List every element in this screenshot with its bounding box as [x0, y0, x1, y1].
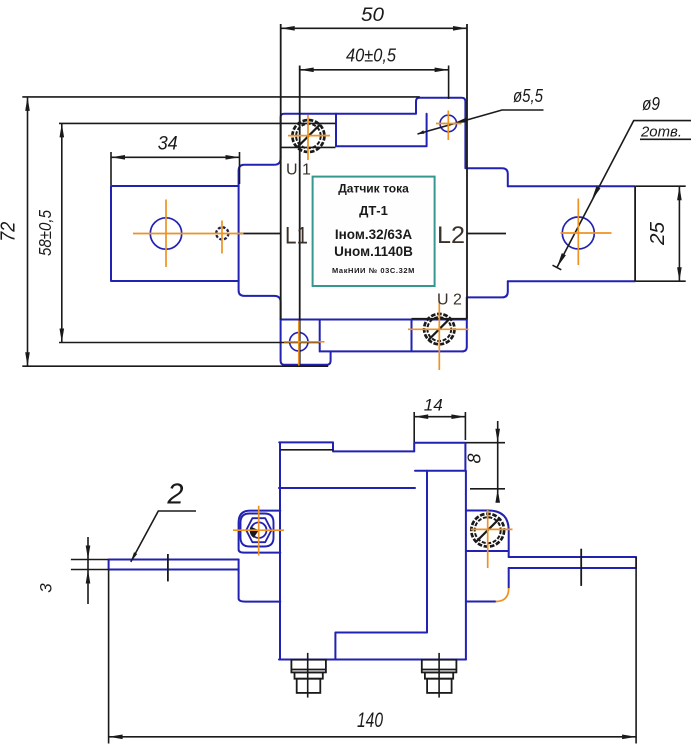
body bottom edge side view [279, 659, 466, 661]
body bottom-right corner [462, 297, 467, 351]
svg-text:8: 8 [465, 453, 485, 463]
dim 40±0.5 line [300, 69, 449, 71]
dim 25 extension lines [636, 186, 686, 281]
bottom recess edge [320, 320, 463, 352]
cover step edge side view [280, 449, 333, 451]
mounting hole Ø5.5 bottom-left [290, 333, 308, 351]
body outline top view: left edge + top edge + top-right ear [281, 98, 466, 169]
centreline screw U2 [408, 301, 469, 370]
centreline screw U1 [288, 115, 330, 160]
top step + slab top edge side view [279, 442, 414, 451]
terminal line L2 [467, 233, 506, 235]
dim 25 line [678, 186, 680, 281]
centreline small hole left bar [221, 221, 223, 254]
centreline screw right side view [471, 510, 513, 568]
svg-text:40±0,5: 40±0,5 [346, 46, 397, 66]
dim 72 extension lines [22, 97, 420, 366]
svg-text:L1: L1 [285, 223, 308, 250]
dim 3 line [87, 537, 89, 604]
svg-text:Iном.32/63А: Iном.32/63А [335, 227, 412, 242]
left bus bar side view [109, 560, 239, 570]
centreline hole Ø5.5 top [436, 111, 462, 141]
bottom terminal bolt left [291, 653, 326, 698]
extension line 40 right [448, 66, 450, 100]
left screw ear side view [239, 511, 281, 553]
centreline left bar axis [133, 233, 244, 235]
dim 14 extension lines [414, 412, 465, 442]
svg-text:140: 140 [357, 709, 383, 732]
left bus bar plate top view [111, 186, 239, 281]
extension line body right edge [466, 24, 468, 319]
dim 140 extension lines [109, 568, 637, 744]
U1 recess top band [336, 114, 427, 146]
svg-text:Uном.1140В: Uном.1140В [334, 244, 413, 259]
bottom-left mounting ear [281, 320, 331, 365]
leader Ø9 2otv [557, 121, 691, 268]
centreline hex screw side view [233, 506, 284, 556]
svg-text:ДТ-1: ДТ-1 [359, 203, 388, 218]
mounting hole Ø5.5 top-right [440, 115, 457, 132]
hole Ø9 in right bar [562, 217, 594, 249]
svg-text:L2: L2 [437, 222, 465, 249]
centreline hole bottom-left [284, 321, 325, 366]
svg-text:14: 14 [424, 397, 443, 415]
svg-text:ø5,5: ø5,5 [513, 86, 544, 106]
right bar end edge side view [635, 557, 637, 568]
svg-text:58±0,5: 58±0,5 [35, 210, 55, 256]
slab bottom edge side view [279, 487, 415, 489]
callout 2 leader [131, 511, 196, 562]
extension line body left edge [280, 24, 282, 320]
left neck of body [239, 159, 281, 320]
dim 72 line [27, 97, 29, 366]
right screw ear side view [466, 511, 509, 558]
terminal line L1 [239, 233, 281, 235]
U2 pad upper edge [412, 318, 468, 320]
screw right ear side view [471, 514, 504, 547]
centreline hole right bar [561, 199, 612, 266]
dim 8 extension lines [466, 443, 505, 489]
dim 140 line [109, 736, 637, 738]
centreline big hole left bar [165, 200, 167, 268]
bottom band top edge [281, 319, 467, 321]
bottom terminal bolt right [422, 653, 457, 698]
left hex screw side view [241, 514, 274, 547]
screw U2 [424, 314, 454, 344]
left lower tab side view [239, 560, 281, 602]
right boss of body [467, 168, 508, 297]
body right edge side view [465, 471, 467, 660]
screw U1 [292, 120, 324, 152]
dim 3 extension lines [71, 560, 109, 570]
right bus bar top view [508, 186, 635, 281]
slot blob left hex screw [250, 527, 259, 538]
hole Ø9 in left bar [150, 218, 181, 249]
body left edge side view [279, 442, 281, 659]
svg-text:34: 34 [158, 134, 178, 155]
svg-text:25: 25 [647, 221, 669, 246]
right bar end edge [634, 186, 636, 281]
svg-text:ø9: ø9 [642, 94, 660, 114]
U1 pad lower edge [281, 146, 336, 148]
svg-text:2отв.: 2отв. [640, 125, 682, 141]
dim 58±0.5 line [61, 123, 63, 342]
raised block 14 wide side view [414, 443, 465, 471]
svg-text:Датчик тока: Датчик тока [338, 182, 409, 196]
small hole in left bar [216, 227, 228, 239]
break tick right bar [580, 549, 582, 586]
svg-text:МакНИИ № 03С.32М: МакНИИ № 03С.32М [332, 266, 415, 275]
right bus bar side view [509, 557, 636, 568]
dim 58 extension lines [59, 123, 336, 342]
break tick left bar [167, 554, 169, 581]
svg-text:3: 3 [37, 583, 56, 593]
internal step edge side view [335, 471, 427, 660]
svg-text:U 1: U 1 [286, 162, 311, 179]
leader Ø5.5 [418, 110, 544, 134]
dim 34 extension lines [111, 152, 240, 185]
drawing groups inserted below [109, 98, 637, 660]
svg-text:72: 72 [0, 222, 20, 242]
orange corner arc right tab [496, 588, 509, 602]
right lower tab side view [466, 568, 509, 602]
svg-text:2: 2 [166, 479, 183, 511]
dim 8 line [497, 421, 499, 494]
extension line 40 left / hole centre [299, 66, 301, 365]
dim 34 line [111, 156, 240, 158]
nameplate border [313, 177, 435, 286]
dim 14 line [414, 416, 465, 418]
svg-text:50: 50 [361, 5, 384, 26]
dim 50 line [281, 27, 467, 29]
svg-text:U 2: U 2 [437, 292, 462, 309]
